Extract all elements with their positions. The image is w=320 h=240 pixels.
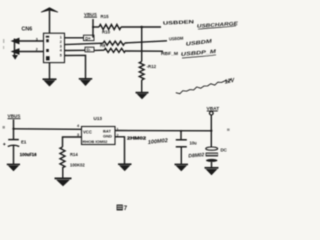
wire main rail to U13: [14, 128, 82, 131]
annotation underline row A: [198, 26, 236, 29]
svg-text:R10: R10: [102, 29, 111, 34]
wire R12 to ground: [141, 80, 143, 92]
wire U13 pin1 rail to battery: [115, 130, 211, 132]
pin dots inside left column: [46, 36, 50, 61]
wire R14 to ground: [62, 167, 64, 178]
node VBUS / line A junction: [92, 26, 94, 28]
node line C / R12: [141, 50, 143, 52]
annotation underline row C: [182, 55, 216, 58]
svg-text:CN6: CN6: [22, 27, 33, 33]
net label box D+: [84, 35, 95, 41]
node VBUS / main rail: [12, 128, 14, 130]
wire D- stub: [65, 49, 86, 51]
VBUS label bottom left: [8, 113, 21, 119]
svg-text:5: 5: [60, 53, 62, 57]
wire line A right: [121, 26, 161, 28]
ground under R12: [136, 93, 149, 100]
wire rail to C9: [180, 131, 182, 139]
ground under battery: [205, 168, 219, 176]
wire VBUS bottom vertical: [13, 120, 15, 140]
svg-text:RBF_M: RBF_M: [161, 51, 179, 56]
ground under C9: [175, 164, 189, 171]
resistor R10: [103, 41, 125, 45]
svg-text:100K02: 100K02: [70, 162, 85, 167]
wire R12 vertical top: [141, 27, 143, 62]
arrow D+ to host: [11, 38, 44, 45]
scan specks: [3, 39, 230, 131]
resistor R15: [99, 25, 121, 30]
arrow D- to host: [11, 48, 44, 55]
svg-text:R14: R14: [70, 152, 78, 157]
capacitor C9: [176, 140, 187, 164]
pin numbers column right side: [60, 36, 62, 58]
node rail / battery: [210, 130, 212, 132]
svg-text:4: 4: [60, 49, 62, 53]
wire bottom pin to ground: [65, 55, 86, 78]
resistor R12: [139, 62, 144, 81]
wire D+ stub: [65, 37, 84, 39]
svg-text:GND: GND: [103, 134, 112, 139]
svg-text:2HM02: 2HM02: [127, 135, 147, 140]
svg-text:USBDM: USBDM: [169, 36, 184, 42]
svg-text:VBUS: VBUS: [84, 12, 97, 17]
wire line A left: [93, 26, 99, 28]
svg-text:U13: U13: [94, 116, 103, 121]
connector J1 box: [44, 33, 65, 62]
svg-text:100uF16: 100uF16: [20, 152, 37, 157]
svg-text:VCC: VCC: [83, 129, 92, 134]
ground under U13 pin2: [118, 164, 132, 171]
wire VBUS vertical: [92, 19, 94, 38]
resistor R14: [60, 147, 65, 168]
svg-text:D-: D-: [87, 47, 92, 52]
svg-text:1: 1: [117, 127, 119, 131]
wire box bottom down: [49, 63, 51, 79]
wire U13 pin3 to R14: [63, 137, 82, 147]
wire U13 pin2 stub: [115, 137, 125, 164]
power symbol VCC top: [41, 8, 58, 34]
figure caption 图7: [117, 205, 128, 213]
svg-text:-R12: -R12: [147, 64, 157, 69]
svg-text:2: 2: [36, 47, 38, 51]
shield stub wire: [12, 39, 18, 60]
svg-text:D+: D+: [85, 36, 91, 41]
ground right of connector: [79, 79, 92, 86]
battery BT1: [206, 147, 218, 168]
annotation 12V scribble: [176, 77, 236, 93]
node rail / C9: [180, 130, 182, 132]
capacitor E1: [8, 140, 19, 164]
IC U13 box: [82, 127, 116, 145]
svg-text:3: 3: [77, 133, 79, 137]
svg-text:10u: 10u: [190, 141, 198, 146]
wire VBAT vertical: [210, 115, 212, 147]
svg-text:DC: DC: [221, 148, 228, 153]
wire line C left: [95, 49, 105, 51]
ground under R14: [55, 178, 72, 186]
svg-text:VBUS: VBUS: [8, 113, 21, 118]
capacitor E1 polarity mark: [3, 143, 6, 146]
VBUS label top: [84, 12, 97, 18]
wire line B left: [65, 43, 104, 44]
ground under connector: [43, 79, 57, 86]
svg-text:E1: E1: [21, 140, 27, 145]
svg-text:RHOB IOM02: RHOB IOM02: [83, 139, 109, 144]
resistor R9: [104, 48, 126, 52]
wire line B right: [125, 41, 167, 43]
svg-text:R9: R9: [100, 43, 106, 48]
wire line C right: [126, 50, 163, 52]
VBAT terminal circle: [210, 111, 214, 115]
node line A / R12: [140, 26, 143, 29]
svg-text:2: 2: [117, 133, 119, 137]
ground under E1: [7, 164, 20, 171]
net label box D-: [85, 47, 94, 52]
svg-text:R15: R15: [101, 14, 110, 19]
